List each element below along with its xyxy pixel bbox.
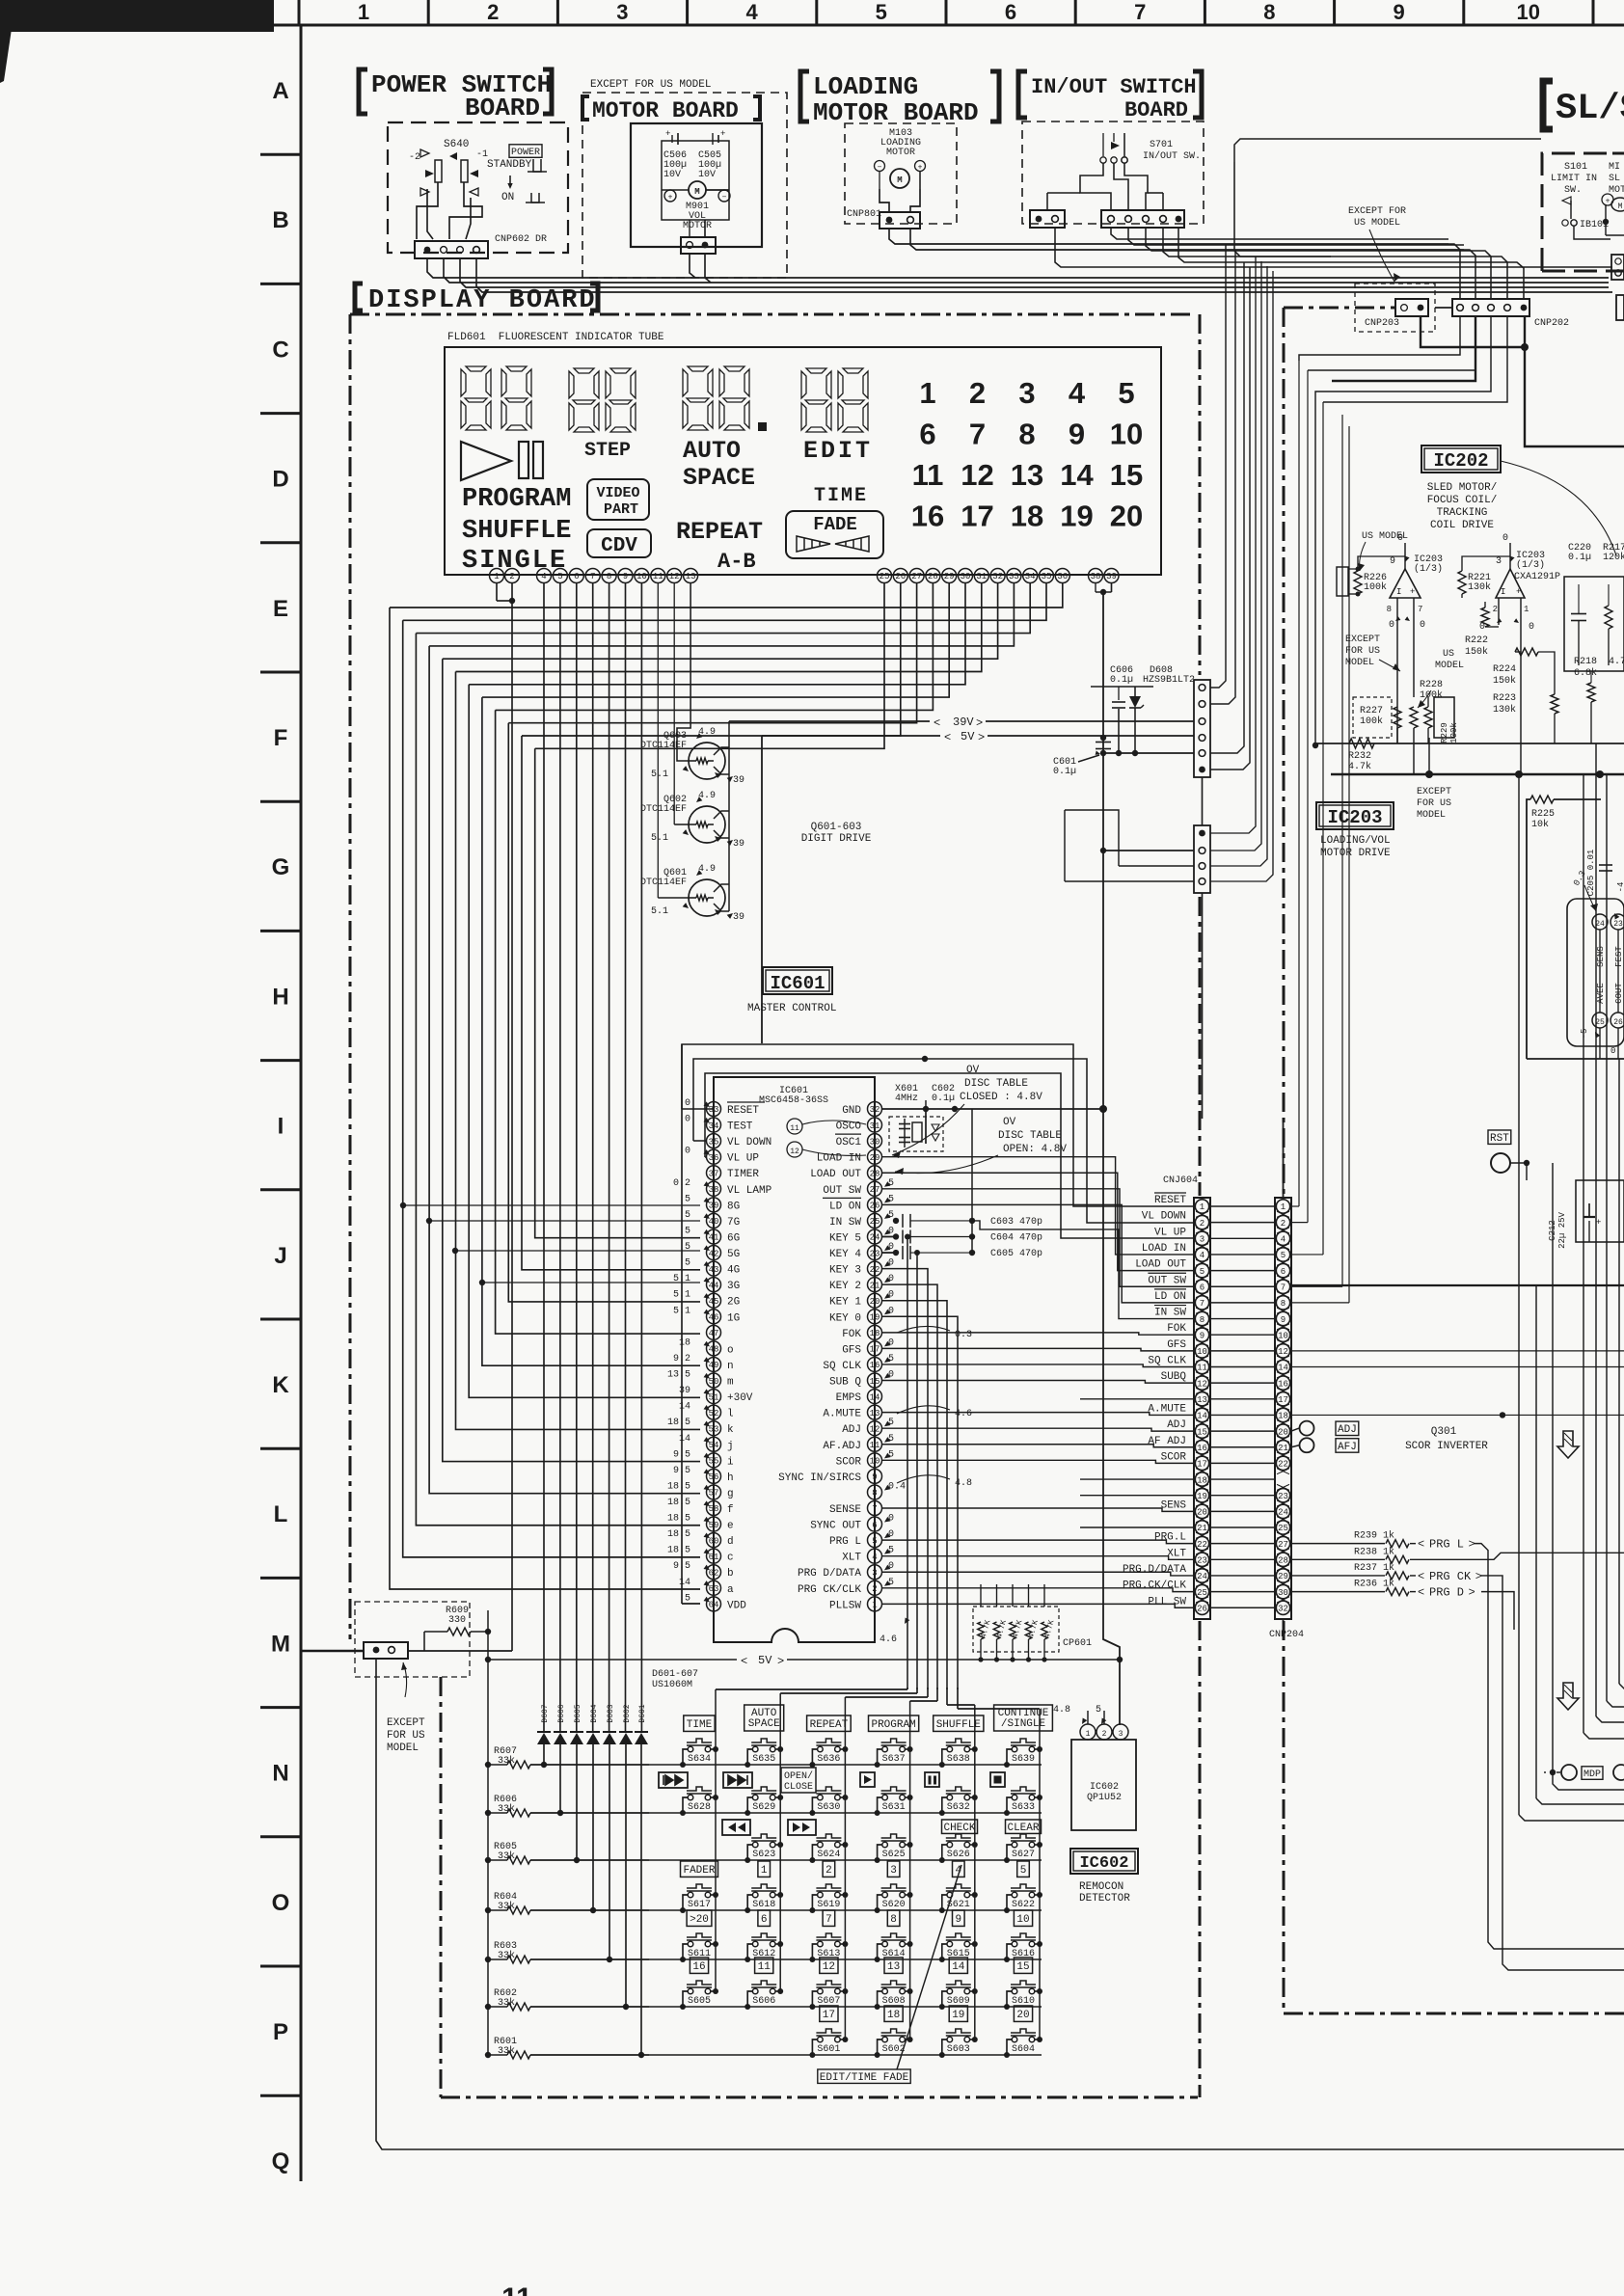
connector right edge a: [1611, 255, 1624, 280]
svg-text:AVEE: AVEE: [1596, 983, 1606, 1004]
svg-text:MSC6458-36SS: MSC6458-36SS: [759, 1095, 828, 1106]
op-amp IC203 second: [1496, 569, 1525, 598]
svg-text:POWER: POWER: [511, 148, 540, 158]
svg-text:3G: 3G: [727, 1281, 740, 1292]
svg-text:18.5: 18.5: [667, 1529, 690, 1540]
svg-text:REPEAT: REPEAT: [676, 518, 763, 546]
svg-text:IN/OUT SW.: IN/OUT SW.: [1143, 150, 1201, 162]
wires IC right pins to CNJ604: [882, 1157, 1195, 1255]
svg-text:4.8: 4.8: [1053, 1705, 1070, 1715]
svg-text:S634: S634: [688, 1754, 711, 1765]
svg-text:LD ON: LD ON: [1154, 1291, 1186, 1303]
svg-text:9: 9: [955, 1914, 961, 1926]
svg-text:5: 5: [685, 1593, 690, 1604]
svg-text:FOK: FOK: [1167, 1323, 1186, 1335]
svg-text:0.4: 0.4: [888, 1481, 906, 1492]
svg-text:39: 39: [709, 1202, 719, 1211]
wire display pins 11-13 to digit drivers: [657, 583, 659, 899]
svg-text:6G: 6G: [727, 1232, 740, 1244]
svg-text:S627: S627: [1012, 1850, 1035, 1860]
icon key pause: [925, 1772, 939, 1787]
svg-text:EDIT: EDIT: [803, 437, 873, 465]
svg-text:M: M: [897, 176, 902, 185]
wire display pins 4-10 to diode columns: [543, 583, 545, 1732]
wires from motor connector: [690, 254, 695, 278]
svg-text:C604 470p: C604 470p: [990, 1232, 1042, 1243]
wires KEY bus down to key matrix: [882, 1235, 897, 1237]
digit group 2 STEP: [569, 368, 599, 432]
svg-text:KEY 0: KEY 0: [829, 1312, 861, 1324]
svg-text:51: 51: [709, 1392, 719, 1402]
switches row 6 S605-S610: [687, 1981, 712, 1985]
svg-text:SPACE: SPACE: [683, 464, 755, 492]
svg-text:HZS9B1LT2: HZS9B1LT2: [1143, 675, 1195, 686]
svg-text:5: 5: [872, 1536, 877, 1546]
svg-text:11: 11: [758, 1961, 771, 1973]
svg-text:SENS: SENS: [1161, 1499, 1187, 1511]
svg-text:0: 0: [888, 1242, 894, 1253]
pins 11 12 bubbles: [787, 1119, 802, 1134]
svg-text:18: 18: [887, 2010, 900, 2021]
svg-text:GFS: GFS: [1167, 1339, 1186, 1351]
svg-text:11: 11: [1197, 1364, 1207, 1373]
svg-text:40: 40: [709, 1217, 719, 1227]
connector right edge b: [1616, 295, 1624, 320]
svg-text:L: L: [274, 1501, 288, 1527]
svg-text:14: 14: [1278, 1364, 1288, 1373]
svg-text:22: 22: [870, 1265, 880, 1275]
svg-text:h: h: [727, 1472, 734, 1484]
svg-text:10: 10: [870, 1457, 880, 1467]
svg-text:J: J: [274, 1243, 286, 1269]
wires connector right lower: [1210, 257, 1256, 833]
svg-text:39: 39: [733, 912, 744, 923]
svg-text:DIGIT DRIVE: DIGIT DRIVE: [801, 833, 872, 845]
svg-text:US MODEL: US MODEL: [1354, 218, 1400, 229]
svg-text:9: 9: [872, 1472, 877, 1482]
svg-text:0: 0: [888, 1370, 894, 1381]
svg-text:57: 57: [709, 1489, 719, 1499]
svg-text:S639: S639: [1012, 1754, 1035, 1765]
svg-text:5: 5: [888, 1210, 894, 1221]
svg-text:PRG L: PRG L: [829, 1536, 861, 1548]
svg-text:4: 4: [541, 572, 546, 581]
svg-text:CLOSED : 4.8V: CLOSED : 4.8V: [960, 1092, 1042, 1103]
svg-text:10: 10: [1110, 418, 1143, 451]
svg-text:S622: S622: [1012, 1900, 1035, 1910]
svg-text:12: 12: [669, 572, 680, 581]
svg-text:19: 19: [952, 2010, 964, 2021]
svg-text:LD ON: LD ON: [829, 1201, 861, 1212]
svg-text:5.1: 5.1: [651, 770, 668, 780]
svg-text:g: g: [727, 1488, 734, 1499]
svg-text:25: 25: [1278, 1524, 1288, 1533]
svg-text:OUT SW: OUT SW: [1148, 1275, 1186, 1286]
svg-text:0: 0: [685, 1098, 690, 1109]
svg-text:−: −: [878, 164, 882, 173]
svg-text:5: 5: [685, 1194, 690, 1204]
svg-text:CNP203: CNP203: [1365, 318, 1399, 329]
label ADJ circle: [1300, 1421, 1314, 1436]
svg-text:18: 18: [1197, 1475, 1207, 1485]
svg-text:0.1µ: 0.1µ: [1110, 675, 1133, 686]
svg-text:OV: OV: [1003, 1117, 1016, 1128]
icon key ff: [788, 1820, 816, 1835]
svg-text:6: 6: [919, 418, 935, 451]
svg-text:I: I: [1396, 587, 1401, 597]
svg-text:0: 0: [888, 1274, 894, 1284]
svg-text:MOTOR: MOTOR: [886, 148, 915, 158]
svg-text:SCOR: SCOR: [836, 1456, 862, 1468]
svg-text:TIME: TIME: [687, 1719, 713, 1731]
svg-text:k: k: [727, 1424, 734, 1436]
svg-text:S629: S629: [752, 1802, 775, 1813]
svg-text:C205 0.01: C205 0.01: [1586, 850, 1596, 897]
main board border: [1284, 307, 1395, 310]
svg-text:R223: R223: [1493, 693, 1516, 704]
svg-text:2: 2: [872, 1584, 877, 1594]
svg-text:19: 19: [1060, 500, 1093, 533]
svg-text:FOR US: FOR US: [387, 1730, 425, 1742]
svg-text:o: o: [727, 1344, 734, 1356]
svg-text:28: 28: [1278, 1556, 1288, 1566]
svg-text:<: <: [1418, 1586, 1424, 1600]
svg-text:1: 1: [872, 1601, 877, 1610]
svg-text:27: 27: [1278, 1540, 1288, 1550]
switches row 1 S634-S639: [687, 1739, 712, 1742]
arrow down 2: [1557, 1683, 1579, 1710]
svg-text:FLD601 FLUORESCENT INDICATOR: FLD601 FLUORESCENT INDICATOR TUBE: [447, 332, 664, 343]
wires from CNP602: [427, 258, 1609, 278]
svg-text:14: 14: [1060, 458, 1094, 492]
svg-text:SL/SF: SL/SF: [1556, 89, 1624, 129]
svg-text:CNJ604: CNJ604: [1163, 1175, 1198, 1186]
svg-text:REPEAT: REPEAT: [810, 1719, 849, 1731]
wire 39V rail: [729, 720, 930, 722]
svg-text:8: 8: [1263, 0, 1275, 24]
svg-text:5.1: 5.1: [651, 906, 668, 917]
svg-text:0: 0: [888, 1306, 894, 1316]
svg-text:5G: 5G: [727, 1249, 740, 1260]
svg-text:XLT: XLT: [1167, 1548, 1186, 1559]
svg-text:S618: S618: [752, 1900, 775, 1910]
svg-text:39: 39: [1106, 572, 1117, 581]
svg-text:FADE: FADE: [813, 514, 857, 535]
svg-text:R224: R224: [1493, 664, 1516, 675]
svg-text:D603: D603: [607, 1704, 615, 1722]
svg-text:64: 64: [709, 1601, 719, 1610]
svg-text:49: 49: [709, 1361, 719, 1370]
svg-text:S623: S623: [752, 1850, 775, 1860]
svg-text:34: 34: [709, 1121, 719, 1131]
svg-text:10: 10: [1517, 0, 1540, 24]
svg-text:e: e: [727, 1521, 734, 1532]
svg-text:i: i: [727, 1456, 734, 1468]
wire digit driver rails: [728, 747, 730, 911]
wire SENS FOK notes: [897, 1326, 950, 1333]
svg-text:CXA1291P: CXA1291P: [1514, 572, 1560, 582]
svg-text:MODEL: MODEL: [1345, 658, 1374, 668]
svg-text:D607: D607: [541, 1704, 550, 1722]
svg-text:E: E: [273, 596, 288, 622]
svg-text:8G: 8G: [727, 1201, 740, 1212]
svg-text:21: 21: [1197, 1524, 1207, 1533]
svg-text:3: 3: [1018, 376, 1035, 410]
svg-text:18: 18: [1011, 500, 1043, 533]
svg-text:S632: S632: [947, 1802, 970, 1813]
svg-text:TRACKING: TRACKING: [1437, 507, 1488, 519]
svg-text:AF.ADJ: AF.ADJ: [823, 1441, 861, 1452]
svg-text:8: 8: [1200, 1315, 1204, 1325]
svg-text:IN SW: IN SW: [1154, 1308, 1186, 1319]
svg-text:DISC TABLE: DISC TABLE: [964, 1078, 1028, 1090]
svg-text:0: 0: [1420, 620, 1425, 631]
IC601 label box: [763, 967, 832, 994]
row ruler: [300, 25, 303, 2181]
svg-text:QP1U52: QP1U52: [1087, 1793, 1122, 1803]
svg-text:12: 12: [870, 1424, 880, 1434]
svg-text:VIDEO: VIDEO: [596, 485, 639, 501]
display tube pins: [490, 569, 504, 583]
wires into CNJ604 left side lower: [1080, 1398, 1194, 1400]
svg-text:>: >: [777, 1655, 784, 1668]
wires from in/out connectors: [1111, 228, 1448, 239]
svg-text:5: 5: [685, 1226, 690, 1236]
S640 wiring: [417, 182, 438, 239]
svg-text:2: 2: [1200, 1219, 1204, 1229]
icon key open/close: [781, 1768, 816, 1793]
svg-text:28: 28: [928, 572, 938, 581]
svg-text:SUBQ: SUBQ: [1161, 1371, 1187, 1383]
svg-text:VL LAMP: VL LAMP: [727, 1185, 772, 1197]
label FADE box: [786, 511, 883, 558]
svg-text:CDV: CDV: [601, 535, 637, 557]
svg-text:IC601: IC601: [770, 973, 825, 994]
svg-text:S631: S631: [882, 1802, 906, 1813]
svg-text:32: 32: [870, 1105, 880, 1115]
svg-text:PLL SW: PLL SW: [1148, 1596, 1186, 1607]
svg-text:10: 10: [636, 572, 647, 581]
label CDV: [587, 529, 651, 557]
svg-text:8: 8: [1387, 605, 1392, 614]
svg-text:12: 12: [790, 1148, 799, 1156]
svg-text:20: 20: [1278, 1427, 1288, 1437]
svg-text:5: 5: [888, 1194, 894, 1204]
svg-text:EXCEPT FOR: EXCEPT FOR: [1348, 206, 1406, 217]
svg-text:R225: R225: [1531, 809, 1555, 820]
svg-text:1: 1: [1281, 1202, 1286, 1212]
key matrix row wires: [530, 1764, 1042, 1766]
wires CNP204 to right bundle: [1291, 1205, 1299, 1207]
wire down-left border to bottom rail: [376, 1659, 1624, 2149]
svg-text:C605 470p: C605 470p: [990, 1249, 1042, 1259]
diode column junctions: [543, 1744, 545, 1765]
svg-text:19: 19: [1197, 1492, 1207, 1501]
svg-text:CNP202: CNP202: [1534, 318, 1569, 329]
wires into CNP202 from top: [1448, 244, 1460, 299]
svg-text:N: N: [272, 1761, 288, 1787]
wire display pins 38-39 rail: [1095, 583, 1096, 593]
svg-text:IN SW: IN SW: [829, 1217, 861, 1229]
IC602 label box: [1070, 1849, 1138, 1874]
svg-text:0: 0: [888, 1514, 894, 1525]
svg-text:9: 9: [1069, 418, 1085, 451]
svg-text:D606: D606: [557, 1704, 566, 1722]
svg-text:>20: >20: [690, 1914, 709, 1926]
svg-text:Q: Q: [272, 2148, 290, 2174]
icon key next: [723, 1772, 752, 1788]
svg-text:S101: S101: [1564, 162, 1587, 173]
svg-text:150k: 150k: [1493, 675, 1516, 687]
svg-text:3: 3: [890, 1865, 897, 1877]
icon key prev: [659, 1772, 688, 1788]
svg-text:37: 37: [709, 1169, 719, 1178]
svg-text:26: 26: [1197, 1604, 1207, 1613]
svg-text:35: 35: [709, 1137, 719, 1147]
arrow down 1: [1557, 1431, 1579, 1458]
svg-text:21: 21: [1278, 1444, 1288, 1453]
svg-text:d: d: [727, 1536, 734, 1548]
svg-text:17: 17: [1197, 1460, 1207, 1470]
svg-text:A-B: A-B: [717, 550, 756, 574]
connector CNP203: [1355, 284, 1435, 332]
svg-text:38: 38: [1091, 572, 1101, 581]
power switch board outline: [388, 122, 568, 253]
svg-text:23: 23: [870, 1249, 880, 1258]
svg-text:3: 3: [1496, 556, 1502, 567]
svg-text:63: 63: [709, 1584, 719, 1594]
svg-text:+: +: [668, 194, 673, 203]
svg-text:<: <: [944, 731, 951, 744]
svg-text:ADJ: ADJ: [1338, 1424, 1357, 1436]
svg-text:17: 17: [823, 2010, 835, 2021]
svg-text:39: 39: [733, 775, 744, 786]
svg-text:4: 4: [1281, 1235, 1286, 1245]
svg-text:9: 9: [1393, 0, 1404, 24]
svg-text:BOARD: BOARD: [1124, 98, 1188, 122]
svg-text:18: 18: [1278, 1412, 1288, 1421]
svg-text:D601-607: D601-607: [652, 1669, 698, 1680]
svg-text:MODEL: MODEL: [1435, 661, 1464, 671]
svg-text:KEY 5: KEY 5: [829, 1232, 861, 1244]
svg-text:16: 16: [870, 1361, 880, 1370]
resistor R222: [1481, 608, 1489, 627]
svg-text:8: 8: [1281, 1299, 1286, 1309]
svg-text:K: K: [272, 1372, 289, 1398]
wire key matrix left bus: [487, 1610, 489, 2055]
svg-text:<: <: [1418, 1570, 1424, 1583]
svg-text:38: 38: [709, 1185, 719, 1195]
svg-text:ON: ON: [501, 192, 514, 203]
svg-text:14: 14: [679, 1434, 690, 1445]
svg-text:EXCEPT: EXCEPT: [387, 1717, 425, 1729]
svg-text:27: 27: [870, 1185, 880, 1195]
svg-text:56: 56: [709, 1472, 719, 1482]
svg-text:BOARD: BOARD: [465, 94, 540, 122]
svg-text:12: 12: [961, 458, 993, 492]
svg-text:>: >: [978, 731, 985, 744]
svg-text:S606: S606: [752, 1996, 775, 2007]
wire left border to connector: [302, 1650, 364, 1653]
svg-text:0: 0: [1389, 620, 1394, 631]
svg-text:D605: D605: [574, 1704, 582, 1722]
loading motor board outline: [845, 123, 957, 224]
svg-text:5V: 5V: [758, 1654, 772, 1667]
svg-text:S638: S638: [947, 1754, 970, 1765]
header LOADING MOTOR BOARD: [800, 71, 809, 122]
column ruler: [258, 24, 1624, 27]
wire display pins 1-2 filament: [496, 583, 498, 602]
svg-text:F: F: [274, 725, 288, 751]
svg-text:7: 7: [1418, 605, 1422, 614]
svg-text:4.7k: 4.7k: [1609, 656, 1624, 667]
svg-text:18.5: 18.5: [667, 1546, 690, 1556]
svg-text:29: 29: [944, 572, 955, 581]
svg-text:MOTOR: MOTOR: [683, 221, 712, 231]
svg-text:25: 25: [880, 572, 890, 581]
svg-text:0: 0: [685, 1115, 690, 1125]
svg-text:LIMIT IN: LIMIT IN: [1551, 174, 1597, 184]
svg-text:LOAD OUT: LOAD OUT: [1135, 1259, 1186, 1271]
svg-text:14: 14: [1197, 1412, 1207, 1421]
svg-text:29: 29: [1278, 1572, 1288, 1581]
svg-text:FEST: FEST: [1614, 946, 1624, 967]
svg-text:100k: 100k: [1360, 716, 1383, 727]
icon key stop: [990, 1772, 1005, 1787]
svg-text:59: 59: [709, 1521, 719, 1530]
wire GND pin32: [882, 1108, 1104, 1110]
svg-text:10: 10: [1278, 1331, 1288, 1340]
svg-text:15: 15: [1197, 1427, 1207, 1437]
svg-text:CLOSE: CLOSE: [784, 1782, 813, 1793]
svg-text:OPEN: 4.8V: OPEN: 4.8V: [1003, 1144, 1067, 1155]
svg-text:VL DOWN: VL DOWN: [1142, 1211, 1186, 1223]
wires CNJ604 to CNP204: [1210, 1205, 1275, 1207]
svg-text:>: >: [1469, 1586, 1475, 1600]
svg-text:26: 26: [1613, 1018, 1623, 1027]
svg-text:SHUFFLE: SHUFFLE: [936, 1719, 982, 1731]
svg-text:14: 14: [679, 1578, 690, 1588]
svg-text:10V: 10V: [698, 170, 716, 180]
svg-text:16: 16: [1278, 1379, 1288, 1389]
svg-text:/SINGLE: /SINGLE: [1001, 1718, 1046, 1730]
svg-text:46: 46: [709, 1313, 719, 1323]
svg-text:10: 10: [1016, 1914, 1029, 1926]
svg-text:5: 5: [557, 572, 562, 581]
svg-text:18: 18: [679, 1337, 690, 1348]
svg-text:I: I: [278, 1114, 284, 1140]
svg-text:SYNC IN/SIRCS: SYNC IN/SIRCS: [778, 1472, 861, 1484]
svg-text:CNP204: CNP204: [1269, 1630, 1304, 1640]
svg-text:SENSE: SENSE: [829, 1504, 861, 1516]
svg-text:5: 5: [1096, 1705, 1101, 1715]
svg-text:52: 52: [709, 1409, 719, 1418]
svg-text:24: 24: [1278, 1508, 1288, 1518]
svg-text:14: 14: [952, 1961, 965, 1973]
svg-text:-2: -2: [409, 152, 420, 163]
svg-text:9: 9: [1281, 1315, 1286, 1325]
svg-text:+: +: [1516, 587, 1521, 597]
svg-text:35: 35: [1042, 572, 1052, 581]
display board outline: [350, 313, 1196, 316]
svg-text:R222: R222: [1465, 635, 1488, 646]
svg-text:1: 1: [919, 376, 935, 410]
svg-text:SPACE: SPACE: [748, 1718, 780, 1730]
svg-text:PRG.CK/CLK: PRG.CK/CLK: [1123, 1580, 1186, 1592]
svg-text:1: 1: [494, 572, 499, 581]
capacitors C506 C505: [662, 141, 729, 220]
svg-text:KEY 2: KEY 2: [829, 1281, 861, 1292]
